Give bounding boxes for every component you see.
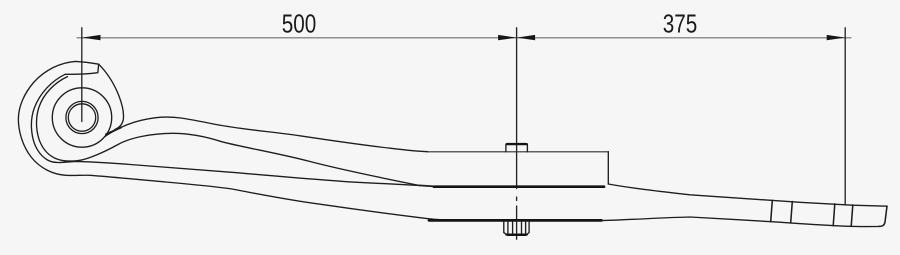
leaf tip top edge over the eye (75, 61, 98, 64)
thread vertical lines (508, 222, 526, 236)
top leaf flat top over seat (427, 151, 608, 153)
centre bolt head (506, 144, 528, 152)
outer wrap spiral + second leaf bottom line (18, 61, 601, 220)
arrowhead right of 500 (498, 35, 516, 40)
thick contact line between leaves (434, 185, 604, 188)
taper division line 4 (851, 205, 853, 227)
svg-text:500: 500 (282, 11, 317, 39)
taper division line 1 (771, 200, 773, 221)
main leaf top line (105, 117, 428, 152)
bolt threaded end outline (504, 222, 529, 236)
extension line left (eye center) (81, 28, 83, 122)
bolt head top edge (thick) (507, 143, 527, 145)
rolled leaf end (squared tip) (65, 64, 99, 74)
taper division line 2 (791, 202, 793, 223)
eye inner diameter circle (52, 88, 111, 147)
main leaf squared end right edge (607, 152, 609, 184)
merge thickening top leaf/eye (106, 128, 121, 135)
taper division line 3 (833, 204, 835, 226)
second leaf bottom line right of centre (602, 217, 879, 227)
bushing outer circle (66, 101, 98, 133)
arrowhead left of 375 (517, 35, 536, 40)
main roll outer arc + main leaf bottom line (37, 77, 419, 186)
second leaf top line right of centre (608, 184, 887, 206)
bushing inner circle (68, 104, 95, 131)
thread bottom edge (thick) (507, 233, 527, 235)
extension line right (844, 28, 846, 205)
merged leaf contact (thin part) (419, 185, 438, 186)
leaf end right edge with rounded bottom corner (879, 206, 888, 226)
arrowhead left of 500 (82, 35, 101, 40)
center line of bolt (extension + centerline, dash-dot) (516, 28, 518, 239)
wrap leaf inner arc + second leaf top line (31, 74, 419, 185)
svg-text:375: 375 (663, 11, 698, 39)
arrowhead right of 375 (827, 35, 846, 40)
eye roll right spiral (99, 64, 124, 129)
dimension line (77, 37, 851, 39)
thick bottom line of lower leaf at centre (429, 219, 602, 222)
